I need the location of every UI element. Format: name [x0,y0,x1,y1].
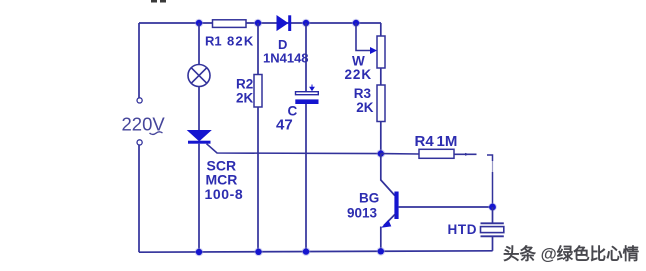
label R4 1M [415,133,458,150]
resistor R3 [377,85,385,122]
potentiometer W body [377,36,385,68]
watermark 头条 @绿色比心情 [503,244,641,265]
capacitor C (electrolytic) [295,85,318,105]
resistor R4 with leads [381,149,477,158]
node: top rail at wiper branch [352,19,361,28]
label HTD [448,222,478,237]
lamp (indicator) [188,65,210,87]
node: top rail at C branch [302,19,311,28]
wire: C branch upper [305,23,307,91]
node: gate / R4 junction [377,149,386,158]
node: bottom rail at emitter branch [377,247,386,256]
svg-text:100-8: 100-8 [205,186,244,202]
svg-text:2K: 2K [356,100,374,115]
svg-text:R1: R1 [205,33,222,48]
svg-text:2K: 2K [236,91,254,106]
wire: SCR gate [207,144,382,154]
wire: buzzer to bottom rail [492,236,494,251]
svg-text:82K: 82K [227,33,254,48]
wire: W to R3 [380,68,382,85]
wire: C branch lower [305,104,307,252]
wire: HTD node down to buzzer [492,207,494,223]
wire: top rail corner down to potentiometer [380,23,382,36]
node: bottom rail at C branch [302,247,311,256]
node: top rail at R2 branch [254,19,263,28]
resistor R1 [213,20,247,28]
svg-text:1N4148: 1N4148 [263,50,309,65]
label R3 2K [354,86,374,115]
wire: R3 down to gate node [380,122,382,154]
wire: lamp branch upper [198,23,200,65]
label R1 82K [205,33,254,48]
node: bottom rail at SCR branch [195,248,204,257]
svg-text:头条 @绿色比心情: 头条 @绿色比心情 [503,244,640,264]
AC source label 220V [122,114,166,135]
wire: top rail [139,22,381,24]
svg-text:BG: BG [359,190,379,205]
label BG 9013 [347,190,379,220]
svg-text:1M: 1M [437,133,458,150]
potentiometer W wiper arrow [356,23,377,54]
label W 22K [345,53,372,82]
wire: broken lead corner down to HTD node [487,155,493,207]
svg-text:R4: R4 [415,133,435,150]
svg-text:R3: R3 [354,86,372,101]
SCR (thyristor) symbol [188,131,211,144]
terminal: AC input lower [137,140,142,145]
wire: left rail lower [138,145,140,252]
label R2 2K [236,77,254,106]
resistor R2 [254,75,262,108]
node: HTD junction [488,203,497,212]
terminal: AC input upper [137,98,142,103]
label D 1N4148 [263,37,309,65]
wire: junction down to transistor collector [380,154,382,181]
label C 47 [276,104,298,134]
buzzer HTD symbol [481,223,504,236]
wire: SCR cathode to bottom rail [198,144,200,253]
svg-text:R2: R2 [236,77,253,92]
wire: transistor to HTD node [399,206,493,208]
transistor BG (9013) [381,180,399,228]
wire: lamp to SCR anode [198,87,200,131]
node: bottom rail at R2 branch [254,248,263,257]
diode D [277,15,291,31]
wire: left rail upper [138,23,140,98]
svg-text:22K: 22K [345,67,372,82]
wire: bottom rail [139,251,493,252]
svg-text:9013: 9013 [347,206,378,221]
label SCR MCR 100-8 [205,158,244,203]
node: top rail at lamp branch [195,19,204,28]
wire: R2 branch lower [257,107,259,252]
svg-text:HTD: HTD [448,222,478,237]
wire: R2 branch upper [257,23,259,75]
svg-text:47: 47 [276,116,293,133]
wire: emitter to bottom rail [380,227,382,252]
